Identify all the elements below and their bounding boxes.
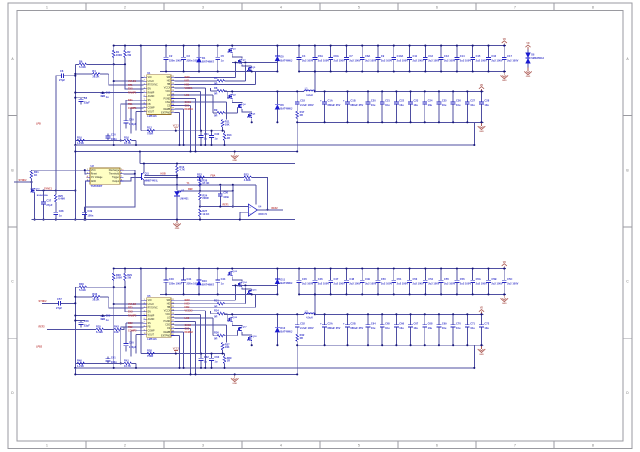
capacitor C5 [215, 46, 224, 72]
junction [251, 293, 253, 295]
diode D11 [275, 269, 293, 295]
svg-text:C21: C21 [385, 99, 390, 103]
junction [361, 70, 363, 72]
svg-text:1u: 1u [221, 281, 224, 285]
junction [424, 70, 426, 72]
svg-text:RAMP1: RAMP1 [128, 92, 137, 95]
resistor R19 [176, 166, 179, 174]
junction [231, 313, 233, 315]
wire RT net [109, 74, 144, 85]
capacitor C6 [56, 69, 76, 82]
junction [217, 45, 219, 47]
junction [219, 184, 221, 186]
junction [456, 293, 458, 295]
wire Q10 source to ground rail [34, 193, 36, 220]
junction [314, 70, 316, 72]
junction [466, 90, 468, 92]
svg-text:3: 3 [144, 84, 145, 86]
wire Q1-Q3 [232, 276, 242, 281]
svg-text:D1: D1 [202, 56, 206, 60]
capacitor C71 [465, 314, 476, 345]
junction [176, 184, 178, 186]
junction [200, 130, 202, 132]
junction [74, 314, 76, 316]
junction [472, 293, 474, 295]
svg-text:UVLO: UVLO [148, 81, 154, 83]
wire R25 chain vertical [55, 76, 57, 195]
capacitor C46 [312, 269, 329, 295]
wire rail1 bottom bank segment [299, 293, 506, 295]
junction [74, 219, 76, 221]
wire HSB line [145, 174, 177, 176]
capacitor C53 [407, 269, 424, 295]
svg-text:D5: D5 [280, 55, 284, 59]
wire sync2 vertical [31, 178, 33, 182]
capacitor C47 [328, 269, 345, 295]
svg-text:2u2 100V: 2u2 100V [318, 59, 330, 63]
junction [395, 121, 397, 123]
junction [276, 344, 278, 346]
svg-text:6: 6 [436, 6, 438, 10]
wire R24 to REF1 [199, 200, 201, 206]
wire [113, 287, 115, 368]
capacitor C31 [199, 131, 210, 145]
junction [74, 97, 76, 99]
svg-text:VCC1: VCC1 [173, 126, 180, 128]
inductor L2 [304, 310, 315, 319]
wire Q5 source [251, 71, 253, 74]
svg-text:EN: EN [148, 311, 152, 313]
junction [198, 45, 200, 47]
svg-text:FB1: FB1 [128, 103, 133, 106]
capacitor C3 [181, 46, 199, 72]
svg-text:HO: HO [167, 304, 171, 306]
wire 555 gnd leg [85, 181, 86, 220]
wire [120, 104, 122, 140]
wire FB net [121, 103, 144, 105]
svg-text:10u: 10u [456, 326, 461, 330]
power symbol VD [502, 262, 507, 269]
svg-text:HB: HB [167, 307, 171, 309]
svg-text:FB: FB [148, 104, 151, 106]
wire REF line [177, 190, 233, 192]
svg-text:1: 1 [144, 299, 145, 301]
svg-text:17: 17 [172, 320, 174, 322]
junction [503, 45, 505, 47]
junction [234, 373, 236, 375]
capacitor C9 [376, 46, 393, 72]
wire R23 to output node [251, 177, 267, 209]
svg-text:10u: 10u [428, 103, 433, 107]
svg-text:VD: VD [480, 308, 484, 310]
junction [266, 209, 268, 211]
wire SYNC2 line [14, 181, 32, 183]
svg-text:RT2: RT2 [128, 307, 133, 310]
wire opamp output [257, 209, 283, 211]
svg-text:22pF: 22pF [84, 101, 90, 105]
capacitor C50 [376, 269, 393, 295]
svg-text:1.21K: 1.21K [77, 364, 84, 368]
svg-text:C41: C41 [187, 277, 192, 281]
svg-text:C10: C10 [106, 91, 111, 95]
wire [75, 286, 79, 288]
svg-text:1K: 1K [34, 173, 37, 177]
svg-text:1u: 1u [214, 137, 217, 141]
svg-text:EXTPAD: EXTPAD [161, 334, 170, 337]
junction [466, 344, 468, 346]
junction [222, 353, 224, 355]
wire 555 output to Q11 base [123, 177, 139, 181]
wire C18 leg to rail2b [296, 122, 298, 151]
svg-text:4: 4 [280, 6, 282, 10]
junction [296, 121, 298, 123]
wire R27 leg [199, 216, 201, 219]
svg-text:HSB: HSB [161, 172, 166, 175]
wire reset tie [85, 170, 87, 174]
svg-text:2u2 100V: 2u2 100V [476, 59, 488, 63]
resistor R22 [197, 172, 205, 182]
wire [135, 363, 137, 368]
junction [345, 267, 347, 269]
svg-text:R9: R9 [214, 108, 218, 112]
svg-text:C3: C3 [187, 54, 191, 58]
diode D12 [275, 314, 293, 345]
svg-text:2u2 100V: 2u2 100V [476, 282, 488, 286]
svg-text:2u2 100V: 2u2 100V [460, 59, 472, 63]
wire Q1 drain [231, 269, 233, 271]
svg-text:27pF: 27pF [46, 203, 52, 207]
junction [452, 121, 454, 123]
svg-text:10K: 10K [225, 122, 230, 126]
junction [200, 144, 202, 146]
capacitor C72 [479, 314, 490, 345]
capacitor C60 [124, 340, 137, 351]
svg-text:U2: U2 [91, 164, 95, 168]
svg-text:1u: 1u [214, 360, 217, 364]
junction [424, 121, 426, 123]
wire [124, 269, 126, 273]
svg-text:CV Voltage: CV Voltage [91, 176, 103, 179]
junction [473, 367, 475, 369]
svg-text:R22: R22 [197, 172, 202, 176]
svg-text:21: 21 [172, 111, 174, 113]
capacitor C32 [209, 131, 220, 145]
svg-text:2u2 100V: 2u2 100V [334, 59, 346, 63]
svg-text:SYNC2: SYNC2 [39, 300, 48, 303]
svg-text:13: 13 [172, 306, 174, 308]
capacitor C1A [320, 91, 341, 122]
svg-text:C10A: C10A [397, 54, 404, 58]
junction [200, 367, 202, 369]
svg-text:VCCX2: VCCX2 [185, 310, 194, 313]
svg-text:BAT46WJ: BAT46WJ [280, 107, 292, 111]
capacitor C69 [437, 314, 448, 345]
junction [74, 150, 76, 152]
power symbol VD [479, 85, 484, 92]
svg-text:11: 11 [172, 299, 174, 301]
capacitor C51 [391, 269, 408, 295]
svg-text:LMV431: LMV431 [180, 198, 189, 201]
capacitor C61 [106, 356, 118, 364]
junction [74, 296, 76, 298]
svg-text:10u: 10u [413, 326, 418, 330]
svg-text:+: + [320, 322, 322, 326]
wire Q6 source [251, 341, 253, 345]
transistor Q16 [228, 317, 238, 322]
svg-text:HB: HB [167, 84, 171, 86]
resistor R6 [79, 59, 87, 69]
capacitor C20 [366, 91, 377, 122]
junction [176, 176, 178, 178]
wire SS net [126, 99, 143, 101]
junction [361, 293, 363, 295]
svg-text:16: 16 [172, 94, 174, 96]
wire RT net [109, 297, 144, 308]
capacitor C17 [502, 46, 519, 72]
svg-text:100n: 100n [87, 214, 93, 218]
svg-text:RAMP2: RAMP2 [128, 314, 137, 317]
capacitor C38 [53, 202, 64, 220]
wire rail1 bottom left segment [160, 293, 277, 295]
wire Q4-Q6 [242, 332, 252, 336]
svg-text:OPA171: OPA171 [258, 213, 267, 216]
junction [276, 293, 278, 295]
svg-text:SYNC1: SYNC1 [44, 187, 53, 190]
junction [204, 144, 206, 146]
resistor R36 [214, 331, 225, 341]
svg-text:C18: C18 [300, 99, 305, 103]
capacitor C55 [439, 269, 456, 295]
svg-text:C60: C60 [129, 340, 134, 344]
wire R8 to gate [225, 313, 228, 315]
svg-text:C20: C20 [371, 99, 376, 103]
wire Q3-Q5 [242, 65, 252, 67]
junction [276, 45, 278, 47]
wire [75, 367, 474, 369]
svg-text:SMDJ58CA: SMDJ58CA [531, 57, 544, 60]
capacitor C67 [408, 314, 419, 345]
junction [74, 373, 76, 375]
svg-text:C29: C29 [129, 118, 134, 122]
junction [219, 206, 221, 208]
svg-text:2u2 100V: 2u2 100V [381, 59, 393, 63]
svg-text:10u: 10u [399, 326, 404, 330]
junction [42, 219, 44, 221]
junction [176, 174, 178, 176]
svg-text:R6: R6 [79, 59, 83, 63]
wire 555 VCC feed [32, 169, 87, 171]
resistor R23 [244, 172, 252, 182]
capacitor C2B [343, 314, 364, 345]
transistor Q15 [247, 289, 257, 294]
svg-text:1u: 1u [221, 58, 224, 62]
wire R13 leg2 [224, 364, 226, 368]
svg-text:AGND: AGND [148, 95, 155, 98]
wire Q2 drain [231, 314, 233, 316]
transistor Q6 [247, 113, 256, 118]
capacitor C39 [82, 207, 94, 220]
capacitor C28 [479, 91, 490, 122]
svg-text:C32: C32 [214, 132, 219, 136]
resistor R26 [199, 179, 202, 187]
ground [501, 72, 509, 83]
svg-text:D12: D12 [280, 326, 285, 330]
wire R11 leg [222, 127, 224, 131]
resistor R11 [221, 120, 230, 128]
junction [135, 367, 137, 369]
svg-text:18: 18 [172, 101, 174, 103]
wire R13 leg [224, 131, 226, 133]
junction [175, 130, 177, 132]
junction [381, 344, 383, 346]
wire R21 to gate node [31, 178, 33, 189]
svg-text:EN: EN [148, 89, 152, 91]
svg-text:7: 7 [514, 444, 516, 448]
junction [345, 45, 347, 47]
wire Q11 collector [143, 164, 145, 173]
svg-text:Discharge: Discharge [109, 169, 120, 172]
junction [381, 313, 383, 315]
junction [346, 344, 348, 346]
svg-text:EN1: EN1 [128, 88, 133, 91]
junction [232, 184, 234, 186]
svg-text:C30: C30 [111, 133, 116, 137]
power symbol VD for TVS [525, 43, 530, 49]
resistor R39 [223, 356, 232, 364]
svg-text:2u2 100V: 2u2 100V [397, 59, 409, 63]
junction [140, 267, 142, 269]
svg-text:0R: 0R [300, 336, 303, 340]
resistor R13 [223, 133, 232, 141]
svg-text:+: + [343, 322, 345, 326]
junction [314, 293, 316, 295]
inductor L1 [304, 87, 315, 96]
junction [74, 302, 76, 304]
capacitor C44 [215, 269, 226, 295]
wire Q1-Q3 [232, 54, 242, 59]
wire [76, 362, 125, 364]
svg-text:C5A: C5A [318, 54, 323, 58]
svg-text:COMP1: COMP1 [128, 107, 137, 110]
junction [124, 286, 126, 288]
wire [124, 58, 126, 65]
junction [314, 313, 316, 315]
svg-text:100n: 100n [111, 360, 117, 364]
wire [124, 281, 126, 288]
wire R26-R24 segment [199, 186, 201, 193]
svg-text:MMBT4401L: MMBT4401L [145, 180, 159, 183]
wire [75, 373, 297, 375]
svg-text:GND: GND [526, 76, 531, 78]
wire rail1 bottom bank segment [299, 71, 506, 73]
capacitor C27 [465, 91, 476, 122]
svg-text:220n 100V: 220n 100V [169, 58, 182, 62]
svg-text:VD: VD [503, 262, 507, 264]
capacitor C62 [199, 354, 210, 368]
svg-text:27pF: 27pF [56, 306, 62, 310]
junction [503, 70, 505, 72]
resistor R38 [147, 349, 155, 359]
svg-text:C47: C47 [334, 277, 339, 281]
junction [217, 70, 219, 72]
junction [472, 267, 474, 269]
wire rail2 right segment [315, 90, 484, 92]
svg-text:C11: C11 [412, 54, 417, 58]
svg-text:20: 20 [172, 331, 174, 333]
svg-text:C27: C27 [470, 99, 475, 103]
svg-text:8: 8 [144, 326, 145, 328]
wire R17 leg [296, 342, 298, 346]
wire [75, 63, 79, 65]
svg-text:0R: 0R [214, 314, 217, 318]
junction [30, 181, 32, 183]
svg-text:1R: 1R [227, 136, 230, 140]
junction [424, 293, 426, 295]
junction [503, 267, 505, 269]
svg-text:2: 2 [144, 303, 145, 305]
svg-text:R36: R36 [214, 331, 219, 335]
svg-text:10K: 10K [114, 330, 119, 334]
resistor R40 [77, 358, 85, 368]
svg-text:0R: 0R [214, 81, 217, 85]
resistor R43 [114, 324, 122, 334]
wire [76, 140, 125, 142]
diode D1 [196, 46, 214, 72]
capacitor C30 [106, 133, 118, 141]
svg-text:R33: R33 [92, 292, 97, 296]
wire [114, 45, 506, 47]
junction [210, 144, 212, 146]
capacitor C52 [295, 314, 314, 334]
svg-text:100n: 100n [223, 195, 229, 199]
svg-text:C2: C2 [169, 54, 173, 58]
junction [234, 150, 236, 152]
resistor R12 [147, 126, 155, 136]
junction [393, 45, 395, 47]
junction [102, 314, 104, 316]
junction [410, 313, 412, 315]
capacitor C37 [41, 191, 53, 220]
svg-text:6.49K: 6.49K [58, 197, 65, 201]
wire [113, 46, 115, 50]
junction [42, 189, 44, 191]
junction [231, 45, 233, 47]
svg-text:2u2 100V: 2u2 100V [460, 282, 472, 286]
svg-text:R31: R31 [214, 299, 219, 303]
junction [298, 45, 300, 47]
svg-text:6: 6 [144, 318, 145, 320]
capacitor C18 [295, 91, 314, 111]
svg-text:C57: C57 [57, 297, 62, 301]
svg-text:VCCX: VCCX [164, 311, 171, 313]
svg-text:C7: C7 [349, 54, 353, 58]
wire [141, 353, 225, 355]
junction [204, 367, 206, 369]
junction [223, 367, 225, 369]
svg-text:C62: C62 [204, 355, 209, 359]
svg-text:C61: C61 [111, 356, 116, 360]
wire [75, 296, 92, 298]
svg-text:1u: 1u [59, 214, 62, 218]
wire Y1 line [144, 184, 256, 186]
svg-text:GND: GND [502, 303, 507, 305]
junction [503, 45, 505, 47]
resistor R30 [79, 282, 87, 292]
svg-text:C63: C63 [214, 355, 219, 359]
svg-text:13: 13 [172, 83, 174, 85]
wire UVLO net [114, 80, 144, 82]
svg-text:3: 3 [202, 6, 204, 10]
